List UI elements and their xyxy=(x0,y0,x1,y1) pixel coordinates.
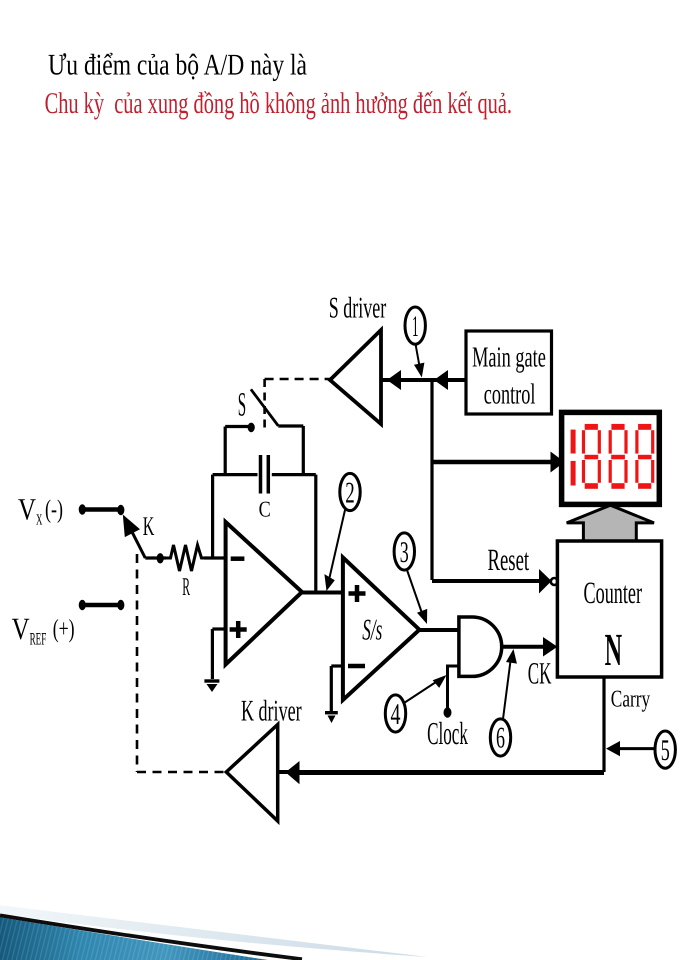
svg-text:4: 4 xyxy=(391,698,401,731)
svg-text:R: R xyxy=(182,572,190,601)
svg-text:control: control xyxy=(484,379,536,411)
svg-text:Chu kỳ của xung đồng hồ không: Chu kỳ của xung đồng hồ không ảnh hưởng … xyxy=(45,87,512,120)
svg-text:Counter: Counter xyxy=(584,575,643,610)
svg-text:Main gate: Main gate xyxy=(472,342,546,374)
svg-text:Ưu điểm của bộ A/D này là: Ưu điểm của bộ A/D này là xyxy=(48,48,307,81)
svg-text:1: 1 xyxy=(412,310,419,343)
svg-text:CK: CK xyxy=(528,656,552,691)
svg-text:Clock: Clock xyxy=(427,715,468,751)
svg-text:K: K xyxy=(143,511,155,541)
svg-text:S/s: S/s xyxy=(362,614,382,647)
svg-text:V: V xyxy=(18,492,36,527)
svg-text:5: 5 xyxy=(661,734,670,767)
svg-text:6: 6 xyxy=(496,722,505,755)
svg-text:K driver: K driver xyxy=(241,695,302,728)
svg-text:(+): (+) xyxy=(53,614,75,643)
svg-text:Reset: Reset xyxy=(488,542,530,577)
svg-text:REF: REF xyxy=(30,628,47,648)
svg-text:C: C xyxy=(259,497,271,522)
svg-text:Carry: Carry xyxy=(611,687,650,713)
svg-text:X: X xyxy=(36,512,42,529)
svg-text:S driver: S driver xyxy=(329,292,387,325)
svg-text:V: V xyxy=(12,611,30,646)
svg-text:3: 3 xyxy=(400,536,409,569)
svg-text:2: 2 xyxy=(345,477,355,510)
svg-text:S: S xyxy=(238,387,246,424)
svg-text:N: N xyxy=(605,624,623,675)
svg-text:(-): (-) xyxy=(45,495,63,524)
